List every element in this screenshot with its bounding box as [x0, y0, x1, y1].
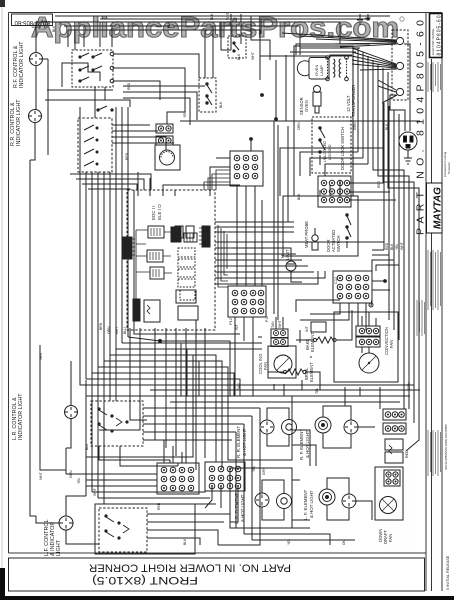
lower switch wires right — [112, 124, 150, 126]
wire cooling fan tails — [278, 343, 280, 344]
svg-text:8104P805-60: 8104P805-60 — [437, 15, 443, 55]
terminal block dashed box — [392, 30, 408, 100]
cooling fan connector pair upper — [271, 329, 288, 338]
watermark registered mark — [400, 17, 404, 21]
relay dashed pair A — [178, 248, 195, 257]
R.R. element coil — [282, 420, 297, 435]
top bus extra 2 — [100, 18, 370, 20]
svg-text:P12: P12 — [265, 316, 269, 322]
top-left part number box — [12, 14, 53, 26]
cooling fan motor — [274, 355, 292, 373]
door actuated switch contacts — [346, 214, 348, 216]
wires cluster to bundle — [85, 172, 87, 379]
title column inner line low — [431, 233, 433, 591]
L.R. hot light — [255, 493, 269, 507]
oven sensor bulb — [313, 92, 321, 106]
relay wires web — [136, 230, 172, 300]
terminal screw 1 — [396, 37, 403, 44]
connector strip B2 — [383, 423, 406, 434]
svg-text:BLK: BLK — [52, 25, 56, 32]
connector pair 1 — [156, 124, 173, 133]
board connector comb bottom-left — [133, 299, 140, 321]
transformer coil right — [339, 59, 340, 77]
wires L.R. light join — [65, 448, 67, 474]
connector strip B1 — [383, 409, 406, 420]
border frame left — [8, 13, 10, 554]
svg-text:RED: RED — [385, 242, 389, 250]
down draft fan motor — [380, 497, 397, 514]
title block micro text lower — [428, 250, 441, 310]
svg-text:BLK: BLK — [85, 443, 89, 450]
L.F. infinite switch dashed box — [99, 508, 147, 552]
svg-text:BLK: BLK — [219, 101, 223, 108]
svg-text:WHT: WHT — [93, 488, 97, 496]
board connector comb left — [123, 237, 132, 259]
svg-text:P12: P12 — [228, 317, 233, 325]
svg-text:INDICATOR LIGHT: INDICATOR LIGHT — [19, 41, 25, 88]
svg-text:BRN: BRN — [99, 322, 103, 330]
nested corner wires top-right of board — [204, 170, 230, 190]
oven lamp body box — [309, 58, 329, 80]
selector lower switch dashed box — [78, 118, 112, 172]
scan gray band 3 — [387, 13, 411, 553]
transformer coil left — [334, 59, 335, 77]
wires lower right of C12 — [310, 303, 340, 314]
L.R. infinite switch solid housing — [86, 396, 193, 457]
connector grid C12 — [333, 271, 372, 303]
relay K6 — [176, 290, 196, 303]
wire drop top right a — [251, 16, 270, 60]
svg-text:SENSOR: SENSOR — [299, 97, 304, 115]
fan wires into terminal 2 — [352, 48, 397, 70]
svg-text:YEL: YEL — [395, 243, 399, 250]
door lock motor — [160, 150, 175, 165]
wire bake/broil tails — [310, 322, 312, 330]
MAYTAG logo box — [427, 183, 443, 233]
svg-text:BLK: BLK — [167, 21, 171, 28]
wires right of L.R. switch to elements — [143, 439, 232, 441]
12V transformer rails — [327, 58, 329, 78]
svg-text:GRN: GRN — [353, 122, 357, 130]
bundle wire 0 — [80, 107, 414, 385]
wire R.R. light bottom — [30, 123, 35, 161]
indicator light R.R. — [29, 110, 42, 123]
wires bake/broil — [296, 339, 313, 341]
wire hi-limit down — [291, 271, 302, 282]
svg-text:ORN: ORN — [297, 122, 301, 130]
svg-text:RED: RED — [125, 152, 129, 160]
top bus extra 1 — [55, 15, 390, 17]
svg-text:RED: RED — [127, 82, 131, 90]
bundle wire 2 — [92, 373, 234, 396]
bundle wire 1 — [86, 379, 240, 396]
lower switch contacts — [84, 125, 94, 130]
door lock motor box — [155, 145, 180, 170]
svg-text:OVEN: OVEN — [304, 100, 309, 112]
convection connector lower — [356, 337, 380, 347]
door lock switch dashed box — [199, 78, 216, 112]
connector grid P12 — [228, 286, 266, 317]
wire L.R. light bottom — [66, 419, 71, 449]
wire vertical mid c — [275, 60, 277, 119]
paper edge line left — [1, 0, 3, 600]
svg-text:R. R. ELEMENT: R. R. ELEMENT — [236, 426, 241, 458]
solid box around meat probe group — [283, 196, 358, 256]
ground arrow top middle 2 — [366, 14, 371, 20]
wire horizontal mid right runs — [300, 152, 358, 176]
svg-text:& HOT LIGHT: & HOT LIGHT — [309, 490, 314, 518]
bundle wire 7 — [122, 342, 262, 344]
cooling fan connector pair lower — [271, 338, 288, 347]
lock switch 2 contacts — [319, 127, 321, 129]
terminal screw 3 — [396, 88, 403, 95]
wire vertical mid d — [285, 55, 287, 121]
svg-text:8104P805: 8104P805 — [32, 25, 48, 29]
svg-text:Products: Products — [447, 162, 451, 174]
wire L.F. left stub — [36, 516, 59, 523]
wire R.F. light top — [36, 22, 60, 53]
control board dashed outline — [127, 190, 215, 330]
title column divider — [425, 13, 427, 592]
wires into convection connectors — [361, 316, 363, 326]
indicator light L.F. — [59, 516, 73, 530]
mid cluster contacts — [97, 109, 99, 111]
wires into down draft area — [403, 390, 405, 409]
hi limit thermostat — [286, 261, 296, 271]
bottom title box — [9, 558, 425, 591]
svg-text:UNLOCKED: UNLOCKED — [323, 141, 327, 162]
svg-text:GRN: GRN — [407, 382, 411, 390]
wires L.F. switch right — [147, 513, 230, 515]
right feeds — [296, 300, 340, 312]
wires above transformer to terminals — [296, 44, 370, 55]
svg-text:TAN: TAN — [271, 321, 275, 328]
convection fan motor — [359, 353, 379, 373]
svg-text:WHT: WHT — [278, 320, 282, 328]
R.F. hot light — [344, 420, 358, 434]
svg-text:WHT: WHT — [400, 242, 404, 250]
R.R. hot light — [260, 420, 274, 434]
right vertical runs lower — [403, 250, 405, 390]
selector internal steps — [75, 63, 100, 81]
right runs turning left into C12 — [372, 254, 389, 256]
meat probe jack — [312, 235, 318, 241]
scan gray band 4 — [210, 13, 224, 553]
wire drop top right b — [260, 19, 262, 34]
wires below switch — [99, 446, 170, 460]
scan gray band 2 — [336, 13, 362, 553]
wires below selector — [47, 89, 113, 91]
wire C8 top — [250, 139, 252, 151]
wires board right to C12 — [215, 247, 290, 249]
svg-text:INT: INT — [305, 325, 309, 332]
wire hi-limit top — [283, 248, 291, 261]
relay K3 — [150, 267, 164, 279]
svg-text:WHT: WHT — [39, 472, 43, 480]
top bus wire 1 — [60, 22, 340, 44]
svg-text:WHT: WHT — [251, 52, 255, 60]
svg-text:LAMP: LAMP — [319, 65, 324, 76]
svg-text:MAYTAG: MAYTAG — [433, 187, 444, 229]
svg-text:RED: RED — [157, 502, 161, 510]
relay INT box 2 — [385, 452, 403, 463]
staircase from terminals down — [404, 110, 406, 131]
wire L.F. light top — [66, 496, 86, 516]
L.F. element coil double — [319, 489, 335, 505]
indicator light R.F. — [30, 53, 43, 66]
door lock switch contacts — [206, 83, 208, 85]
svg-text:0 INITIAL RELEASE: 0 INITIAL RELEASE — [446, 555, 450, 590]
svg-text:YEL: YEL — [183, 111, 187, 118]
svg-text:BLK: BLK — [237, 53, 241, 60]
relay dashed C — [180, 290, 195, 300]
title column inner line — [431, 59, 433, 183]
title block micro text upper — [428, 62, 441, 92]
svg-text:YEL: YEL — [287, 538, 291, 545]
comb connector mid — [171, 227, 181, 242]
INT component — [311, 322, 326, 332]
R.F. element coil double — [315, 417, 331, 433]
top vent connector dashed — [228, 36, 246, 58]
border schematic bottom — [9, 552, 427, 554]
wire C8 bottom stubs — [236, 186, 238, 286]
svg-text:R. F. ELEMENT: R. F. ELEMENT — [299, 429, 304, 460]
L.R. switch contacts — [98, 408, 100, 410]
svg-text:WHT: WHT — [39, 352, 43, 360]
connector grid P6 — [205, 462, 245, 491]
top bus wire 3 — [68, 30, 260, 80]
wires R.F. — [323, 406, 351, 420]
svg-text:ELEMENT: ELEMENT — [310, 332, 315, 352]
svg-text:FAN: FAN — [263, 362, 268, 370]
wires upper-mid verticals — [273, 121, 275, 314]
wire P11 to right staircase — [349, 182, 384, 184]
scan gray band 1 — [96, 13, 118, 553]
svg-text:TAN: TAN — [237, 383, 241, 390]
svg-text:LIGHT: LIGHT — [56, 539, 62, 556]
wires P12 bottom drops — [234, 317, 236, 396]
fan wires into terminal 1 — [282, 33, 397, 47]
scan black bottom-left corner — [0, 568, 5, 600]
bundle wire 4 — [104, 361, 222, 468]
verticals above bottom grids — [163, 440, 165, 463]
nested corners into board top — [70, 174, 151, 190]
connector pair 2 — [156, 136, 173, 145]
connector grid P11 — [318, 176, 351, 207]
long wires from control box bottom — [130, 328, 147, 420]
wire C8 left stubs — [216, 157, 230, 159]
title block dense block — [428, 430, 441, 476]
bundle wire 3 — [98, 367, 228, 396]
svg-text:ELECTRIC RANGE: ELECTRIC RANGE — [431, 29, 435, 55]
bundle wire 9 — [134, 190, 240, 334]
oven compartment solid box — [294, 46, 353, 196]
indicator light L.R. — [65, 406, 78, 419]
svg-text:GRN: GRN — [69, 470, 73, 478]
wire left margin long WHT — [29, 160, 31, 412]
svg-text:PART NO. IN LOWER RIGHT CORNER: PART NO. IN LOWER RIGHT CORNER — [89, 562, 291, 574]
svg-text:FRONT (8X10.5): FRONT (8X10.5) — [92, 574, 198, 586]
bundle lower wire 1 — [150, 389, 420, 391]
clock switch wires right — [123, 85, 205, 87]
svg-text:TEL: TEL — [315, 388, 319, 394]
border frame right outer — [441, 13, 443, 592]
bundle lower wire 3 — [170, 401, 400, 403]
L.R. element group box — [230, 468, 292, 528]
svg-text:LIMIT: LIMIT — [285, 249, 290, 260]
bus wires into grids — [66, 473, 157, 475]
wires P12 to cooling fan — [275, 317, 277, 329]
top bus wire 2 — [64, 26, 300, 55]
relay dashed pair B — [178, 269, 195, 277]
svg-text:BLK: BLK — [210, 13, 214, 20]
svg-text:GRY: GRY — [115, 326, 119, 334]
convection fan box — [334, 312, 398, 382]
wire R.F. light bottom — [35, 66, 37, 111]
ground symbol below plug — [404, 150, 412, 164]
L.F. infinite switch solid housing — [95, 504, 195, 554]
scan mark top-left — [0, 0, 5, 7]
bundle wire 5 — [110, 355, 216, 462]
selector terminal wires right — [114, 54, 199, 78]
svg-text:INDICATOR LIGHT: INDICATOR LIGHT — [18, 393, 24, 440]
wire meat probe top drops — [319, 190, 321, 196]
bundle lower wire 2 — [160, 395, 410, 397]
relay INT box — [385, 439, 403, 450]
convection connector upper — [356, 326, 380, 336]
wire left margin lower — [40, 345, 66, 474]
wire L.F. light bottom — [66, 530, 99, 544]
wires C12 right to margin — [372, 280, 385, 282]
svg-text:BLU: BLU — [123, 327, 127, 334]
svg-text:INT: INT — [235, 325, 239, 330]
svg-text:BLK: BLK — [385, 123, 389, 130]
nested vertical runs right edge of board — [218, 225, 228, 287]
stub into L.R. switch top — [109, 355, 111, 401]
svg-text:S104A4P805A60 DWG 8104P805: S104A4P805A60 DWG 8104P805 — [444, 424, 448, 470]
connector grid P5 — [157, 463, 199, 494]
striped component — [184, 233, 197, 242]
door lock switch 2 dashed box — [312, 117, 351, 173]
L.R. infinite switch dashed box — [91, 401, 143, 446]
terminal screw 2 — [396, 62, 403, 69]
relay K5 — [144, 300, 160, 322]
selector contacts — [79, 56, 81, 58]
wires bottom right — [230, 408, 260, 545]
wire terminal drop to plug — [404, 44, 410, 131]
wire long run right of motor — [180, 119, 276, 121]
ground arrow top middle — [357, 14, 363, 24]
down draft connector — [384, 470, 400, 486]
L.F. hot light — [342, 494, 356, 508]
svg-text:ELE I O: ELE I O — [157, 204, 162, 220]
relay K7 — [178, 306, 198, 320]
bottom long runs — [236, 527, 310, 529]
svg-text:GRN: GRN — [262, 467, 266, 475]
bundle wire 8 with junction — [128, 337, 230, 341]
svg-text:EDC I I: EDC I I — [151, 205, 156, 220]
relay K2 — [147, 250, 163, 262]
svg-text:BLK: BLK — [183, 538, 187, 545]
wire L.R. light top — [70, 380, 72, 406]
svg-text:YEL: YEL — [252, 465, 256, 472]
wires board top drops — [137, 172, 139, 196]
svg-text:MEAT PROBE: MEAT PROBE — [304, 221, 309, 248]
power plug — [399, 132, 417, 150]
svg-text:WHT: WHT — [226, 12, 230, 20]
wires convection to bottom — [344, 387, 346, 406]
bundle wire 6 — [116, 348, 262, 350]
svg-text:INDICATOR LIGHT: INDICATOR LIGHT — [16, 99, 22, 146]
down draft fan box — [375, 467, 403, 520]
L.F. switch contacts — [105, 515, 107, 517]
small caps C9 — [175, 226, 183, 238]
top bus drop left cluster — [67, 30, 69, 47]
fan wires into terminal 3 — [378, 80, 397, 103]
oven lamp loop — [297, 61, 309, 76]
transformer corner terminals — [326, 56, 330, 60]
right column heavy part-number box — [430, 14, 443, 58]
wires L.R. switch right — [143, 407, 260, 409]
wire bundle lower left — [85, 380, 87, 496]
board connector comb right — [202, 226, 210, 247]
oven selector switch dashed box — [72, 50, 113, 87]
svg-text:ON: ON — [342, 539, 346, 545]
svg-text:RED: RED — [377, 180, 381, 188]
border frame top — [9, 12, 443, 14]
cooling fan box — [268, 346, 296, 378]
R.R. element group box — [228, 396, 292, 460]
relay K1 — [148, 226, 164, 238]
wires L.F. — [327, 478, 349, 494]
wires R.R. — [267, 408, 289, 420]
svg-text:L. F. ELEMENT: L. F. ELEMENT — [303, 489, 308, 520]
selector terminals — [110, 52, 114, 56]
drops to bottom elements — [180, 343, 182, 396]
wires L.R. — [262, 480, 284, 494]
title block micro text mid — [417, 300, 425, 336]
svg-text:BLK: BLK — [390, 243, 394, 250]
svg-text:YEL: YEL — [77, 477, 81, 484]
svg-text:ORN: ORN — [107, 326, 111, 334]
bake element resistor — [313, 338, 316, 341]
broil element resistor — [283, 370, 286, 373]
wire junctions mid-top — [261, 94, 264, 97]
wire motor top — [167, 112, 185, 124]
svg-text:& HOT LIGHT: & HOT LIGHT — [305, 430, 310, 458]
svg-text:BLK: BLK — [297, 193, 301, 200]
connector grid C8 — [230, 151, 263, 186]
wire left margin to L.F. — [30, 412, 36, 516]
L.R. element coil — [277, 494, 292, 509]
wire drops above door lock switch — [204, 30, 206, 78]
scan black bottom edge — [0, 596, 454, 600]
